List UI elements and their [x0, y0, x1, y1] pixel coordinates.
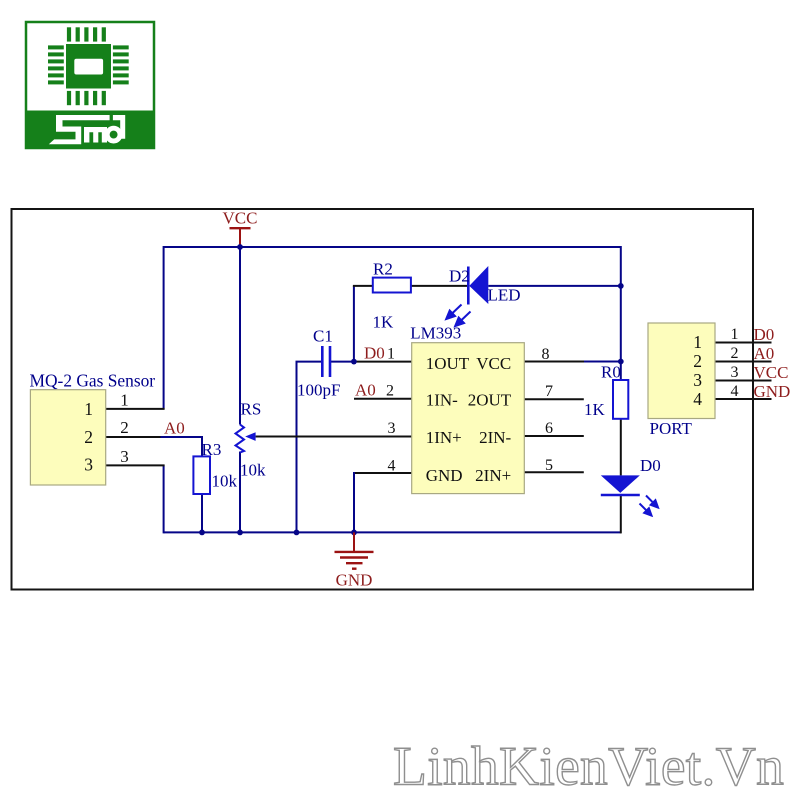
svg-text:A0: A0 [754, 344, 775, 363]
svg-text:1: 1 [387, 346, 395, 363]
svg-text:R3: R3 [202, 440, 222, 459]
svg-text:R0: R0 [601, 363, 621, 382]
svg-text:LM393: LM393 [410, 324, 461, 343]
connector PORT [648, 323, 739, 438]
wire R3 bottom lead [201, 494, 203, 532]
svg-text:4: 4 [693, 389, 702, 409]
svg-text:GND: GND [336, 571, 373, 590]
svg-text:2: 2 [84, 427, 93, 447]
svg-text:3: 3 [84, 455, 93, 475]
wire R2 to LED D2 [411, 285, 468, 287]
svg-text:D0: D0 [364, 344, 385, 363]
junction node RS/bus [237, 530, 243, 536]
power port VCC [223, 209, 258, 248]
svg-text:2: 2 [693, 351, 702, 371]
logo Smd [26, 22, 154, 148]
svg-text:3: 3 [388, 420, 396, 437]
svg-text:2IN-: 2IN- [479, 428, 511, 447]
svg-text:RS: RS [241, 400, 262, 419]
LED D0 [601, 456, 661, 516]
sheet frame [12, 209, 754, 590]
svg-text:VCC: VCC [754, 363, 789, 382]
wire port pin1 [715, 342, 772, 344]
svg-text:1: 1 [693, 332, 702, 352]
wire port pin3 [715, 380, 772, 382]
wire VCC to RS top [239, 247, 241, 425]
wire sensor pin3 down [163, 465, 165, 533]
svg-text:D2: D2 [449, 267, 470, 286]
wire right rail [620, 246, 622, 380]
LED D2 [446, 266, 520, 326]
svg-text:6: 6 [545, 420, 553, 437]
gas sensor MQ-2 [30, 371, 156, 486]
svg-text:PORT: PORT [650, 419, 693, 438]
junction node D2/right rail [618, 283, 624, 289]
wire LM393 pin5 stub [524, 471, 584, 473]
wire LM393 pin3 to RS wiper [256, 436, 412, 438]
resistor R2 [373, 260, 411, 332]
svg-text:1: 1 [731, 326, 739, 343]
wire VCC top rail [164, 246, 621, 248]
wire R2 left horizontal [353, 285, 373, 287]
svg-text:1: 1 [84, 399, 93, 419]
svg-text:1OUT: 1OUT [426, 354, 470, 373]
svg-text:2OUT: 2OUT [468, 390, 512, 409]
svg-text:1K: 1K [584, 400, 606, 419]
svg-text:1K: 1K [373, 313, 395, 332]
wire R2 left vertical [353, 286, 355, 362]
svg-text:MQ-2 Gas Sensor: MQ-2 Gas Sensor [30, 371, 156, 391]
capacitor C1 [297, 327, 340, 400]
junction node R3/bus [199, 530, 205, 536]
junction node C1/bus [294, 530, 300, 536]
ground symbol GND [335, 532, 374, 589]
wire RS bottom to bus [239, 452, 241, 533]
svg-text:D0: D0 [754, 325, 775, 344]
svg-text:4: 4 [388, 458, 396, 475]
svg-text:VCC: VCC [223, 209, 258, 228]
svg-text:100pF: 100pF [297, 381, 340, 400]
svg-text:A0: A0 [164, 419, 185, 438]
potentiometer RS [236, 400, 267, 480]
svg-text:GND: GND [754, 382, 791, 401]
junction node GND/bus [351, 530, 357, 536]
svg-text:10k: 10k [212, 472, 238, 491]
resistor R3 [193, 440, 237, 494]
svg-text:2: 2 [120, 418, 129, 437]
wire C1 left vertical [296, 362, 298, 533]
svg-text:C1: C1 [313, 327, 333, 346]
wire C1 left horizontal [296, 361, 323, 363]
svg-text:A0: A0 [355, 381, 376, 400]
svg-text:8: 8 [542, 346, 550, 363]
svg-text:1: 1 [120, 390, 129, 409]
svg-text:2: 2 [731, 345, 739, 362]
svg-text:1IN+: 1IN+ [426, 428, 462, 447]
svg-text:VCC: VCC [476, 354, 511, 373]
svg-text:GND: GND [426, 466, 463, 485]
resistor R0 [584, 363, 628, 420]
svg-text:3: 3 [693, 370, 702, 390]
op-amp comparator U1 LM393 [386, 324, 553, 494]
svg-text:5: 5 [545, 457, 553, 474]
svg-text:D0: D0 [640, 456, 661, 475]
svg-text:2IN+: 2IN+ [475, 466, 511, 485]
wire LM393 pin1 stub [354, 361, 412, 363]
svg-text:10k: 10k [240, 461, 266, 480]
svg-text:4: 4 [731, 383, 739, 400]
svg-text:LinhKienViet.Vn: LinhKienViet.Vn [393, 737, 784, 798]
wire LM393 pin2 stub [354, 398, 412, 400]
svg-text:R2: R2 [373, 260, 393, 279]
junction node pin8/right rail [618, 359, 624, 365]
wire sensor pin1 [106, 408, 165, 410]
svg-text:LED: LED [488, 286, 521, 305]
wire LM393 pin7 stub [524, 398, 584, 400]
svg-text:3: 3 [120, 447, 129, 466]
junction node pin1/C1/R2 [351, 359, 357, 365]
wire LM393 pin6 stub [524, 435, 584, 437]
wire left rail to sensor pin1 [163, 246, 165, 409]
wire LED D2 to right rail [488, 285, 621, 287]
svg-text:2: 2 [386, 383, 394, 400]
wire sensor pin2 to R3 [106, 436, 162, 438]
wire bottom bus [164, 531, 621, 533]
svg-text:3: 3 [731, 364, 739, 381]
wire LM393 pin4 to bus [354, 472, 412, 474]
wire LM393 pin8 to right rail [524, 361, 585, 363]
wire LED D0 to bus [620, 495, 622, 533]
svg-text:7: 7 [545, 383, 553, 400]
wire port pin2 [715, 361, 772, 363]
wire R0 bottom to LED D0 [620, 419, 622, 476]
svg-text:1IN-: 1IN- [426, 390, 458, 409]
junction node VCC rail [237, 244, 243, 250]
wire sensor pin3 [106, 464, 165, 466]
wire port pin4 [715, 398, 772, 400]
wire C1 right to node [330, 361, 354, 363]
